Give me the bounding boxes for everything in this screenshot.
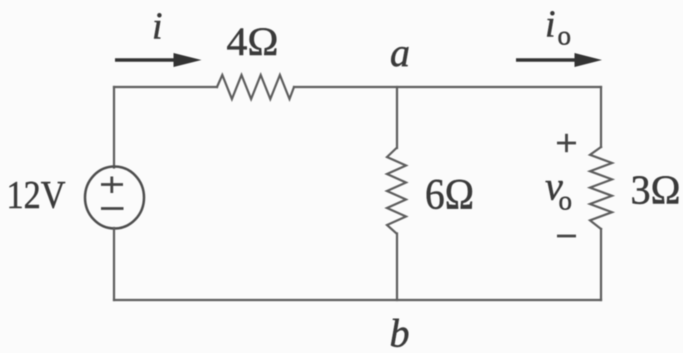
resistor R1 4ohm zigzag [217, 75, 294, 99]
svg-text:4Ω: 4Ω [227, 19, 279, 64]
svg-text:6Ω: 6Ω [425, 172, 474, 219]
wire middle branch upper [396, 87, 398, 148]
current arrow io [516, 53, 602, 67]
resistor R2 6ohm zigzag [387, 148, 406, 234]
svg-text:o: o [558, 21, 572, 51]
svg-text:i: i [152, 6, 163, 48]
wire right rail upper [600, 87, 602, 147]
wire left rail below source [113, 228, 115, 300]
svg-text:o: o [559, 186, 573, 216]
wire top-right segment [294, 86, 601, 88]
vo plus polarity [557, 134, 576, 152]
wire top-left segment [114, 86, 217, 88]
current arrow i [115, 53, 202, 67]
vo minus polarity [557, 235, 576, 238]
svg-text:a: a [390, 30, 410, 75]
svg-text:b: b [390, 311, 410, 353]
wire right rail lower [600, 229, 602, 300]
svg-text:3Ω: 3Ω [631, 167, 681, 213]
source minus sign [101, 207, 124, 210]
voltage source V1 12V circle [85, 167, 144, 229]
svg-text:12V: 12V [7, 174, 66, 217]
wire bottom rail [114, 299, 601, 301]
source plus sign [101, 177, 123, 194]
resistor R3 3ohm zigzag [590, 147, 612, 229]
wire middle branch lower [396, 234, 398, 301]
svg-text:i: i [545, 4, 556, 46]
wire left rail above source [113, 87, 115, 168]
